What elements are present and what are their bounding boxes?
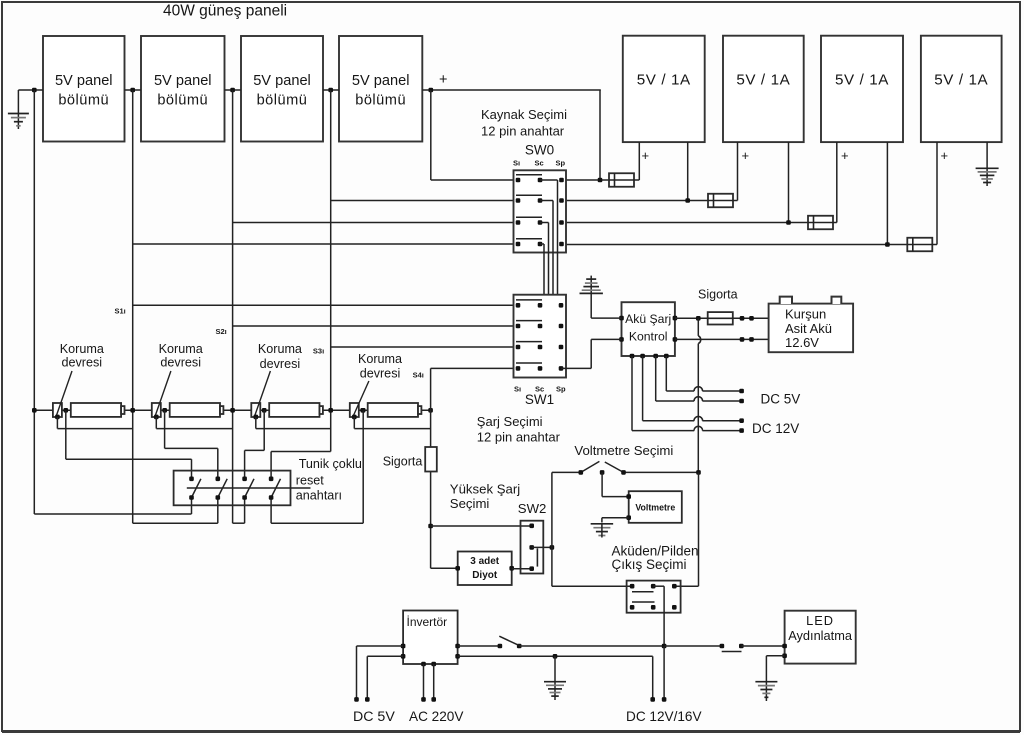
wire to SW2 top [431,525,532,527]
wire to diode box [431,567,458,569]
relay K4 contact box [350,403,359,417]
svg-text:bölümü: bölümü [257,93,308,109]
wire voltsel left [552,471,581,473]
relay K1 blade leader [56,371,72,417]
node S4-SW2 junction [428,524,433,529]
wire DC5V terminal a [354,646,403,702]
node SW2-selector junction [550,545,555,550]
svg-text:+: + [742,148,750,163]
ground G5 rail [544,656,566,700]
switch SR multi reset [174,471,311,506]
wire DC12V row b [632,356,744,433]
wire to LED [741,645,784,647]
block A1 Akü Şarj Kontrol [622,302,675,356]
relay K3 blade leader [254,371,270,417]
fuse FS2 battery [708,312,733,324]
wire panel3 drop [330,90,332,452]
node K1 contacts [55,408,68,419]
svg-text:Aydınlatma: Aydınlatma [788,628,853,643]
wire F3 to UC [833,222,837,224]
wire fuse to battery [733,317,769,319]
wire col3 lower feed [233,498,245,524]
wire upper rail right [664,645,722,647]
label S4I [413,370,424,379]
svg-text:Kaynak Seçimi: Kaynak Seçimi [481,107,567,122]
label Sigorta right [698,288,738,302]
switch SV voltmeter select [579,461,626,474]
label SW1 Sc [535,385,544,394]
svg-text:Akü Şarj: Akü Şarj [625,312,671,326]
fuse F1 [609,173,634,187]
switch SW2 [521,521,544,574]
label SW2 [518,501,547,516]
svg-text:S3ı: S3ı [313,347,324,356]
relay K4 blade leader [353,381,369,417]
switch SO output selector [627,581,681,613]
label Sigorta left [383,455,423,469]
svg-text:Sc: Sc [535,159,544,168]
wire SV common to voltmeter [602,472,629,496]
wire col4 lower feed [271,410,363,523]
fuse F3 [808,216,833,230]
wire K4 bottom link [354,417,430,429]
node row4 UC lead [885,242,890,247]
label AC 220V [409,709,463,724]
wire K3 bottom link [256,417,331,429]
block UD 5V / 1A [921,36,1002,142]
svg-text:Yüksek Şarj: Yüksek Şarj [450,481,520,496]
svg-text:S1ı: S1ı [115,306,126,315]
block UB 5V / 1A [723,36,804,142]
svg-text:DC 5V: DC 5V [761,392,801,407]
label Tunik çoklu reset anahtarı [296,457,362,503]
label SW1 [525,392,554,407]
fuse FP2 holder [170,403,224,417]
label + UB [742,148,750,163]
svg-text:+: + [841,148,849,163]
wire voltsel right [624,471,699,473]
node A1 pins [619,316,677,359]
svg-text:5V / 1A: 5V / 1A [736,72,790,89]
svg-text:Sp: Sp [556,385,566,394]
svg-text:Asit Akü: Asit Akü [785,321,832,336]
svg-text:DC 12V: DC 12V [752,421,799,436]
node ground tap [553,654,558,659]
wire battery tap vertical [698,318,700,472]
svg-text:SW2: SW2 [518,501,547,516]
node battery terminals low [740,337,754,342]
label + UD [941,148,949,163]
label + UA [642,148,650,163]
svg-text:5V / 1A: 5V / 1A [835,72,889,89]
svg-text:devresi: devresi [61,356,102,370]
wire SW1 Sp4 to A1 [561,339,622,368]
svg-text:40W güneş paneli: 40W güneş paneli [163,3,287,20]
svg-text:5V panel: 5V panel [253,73,311,89]
wire S1I row [133,304,514,306]
svg-text:Sp: Sp [556,159,566,168]
wire SW2 mid out [532,546,552,548]
svg-text:İnvertör: İnvertör [407,615,448,629]
svg-text:Diyot: Diyot [472,570,498,581]
node panel bus junctions [32,88,433,93]
block UC 5V / 1A [821,36,903,142]
svg-text:3 adet: 3 adet [470,556,500,567]
wire row2 [566,200,708,202]
wire DC12V/16V terminal b [662,646,667,702]
label DC 5V [761,392,801,407]
wire panel top bus [18,89,600,91]
svg-text:5V panel: 5V panel [352,73,410,89]
svg-text:+: + [941,148,949,163]
svg-text:Çıkış Seçimi: Çıkış Seçimi [612,557,687,572]
node M1 pins [626,494,631,520]
svg-text:bölümü: bölümü [355,93,406,109]
svg-text:Kontrol: Kontrol [629,329,668,343]
label DC 12V/16V [626,709,702,724]
wire SW0 row3 feed [233,222,514,224]
svg-text:Seçimi: Seçimi [450,496,490,511]
wire ground drop [33,90,35,514]
svg-text:+: + [439,72,447,88]
wire protection main row [34,409,430,411]
wire UD leads [937,142,987,245]
wire L1 ground link [766,656,784,701]
svg-text:bölümü: bölümü [58,93,109,109]
wire DC5V terminal b [365,656,403,701]
wire A1 to fuse [675,317,708,319]
label DC 5V bottom [353,709,395,725]
block M1 Voltmetre [629,491,682,523]
node row1 [598,178,603,183]
ground G6 led [755,682,777,698]
svg-text:Koruma: Koruma [60,342,104,356]
wire col2 lower feed [133,498,218,524]
node V1 pins [401,644,460,667]
block B1 Kurşun Asit Akü 12.6V [769,297,854,353]
fuse F2 [708,194,733,208]
wire SW0c4-SW1c1 [540,244,544,305]
wire upper rail mid [519,645,664,647]
node protection row junctions [32,408,433,413]
ground G4 A1 input [580,276,622,319]
wire K1 bottom link [57,417,132,429]
wire A1 low to battery [675,338,769,340]
svg-text:Koruma: Koruma [358,352,402,366]
svg-text:anahtarı: anahtarı [296,489,342,503]
wire panel1 drop [132,90,134,523]
svg-text:12 pin anahtar: 12 pin anahtar [481,124,565,139]
label Koruma devresi 1 [60,342,104,370]
wire UA leads [639,142,687,201]
svg-text:5V panel: 5V panel [154,73,212,89]
label Voltmetre Seçimi [574,443,673,458]
node K4 contacts [352,408,365,419]
svg-text:Koruma: Koruma [159,342,203,356]
block D1 3 adet Diyot [458,552,512,586]
wire DC12V row a [643,356,744,423]
block UA 5V / 1A [623,36,705,142]
svg-text:SW1: SW1 [525,392,554,407]
wire S3I row [331,346,514,348]
label SW0 SI [513,159,520,168]
switch SL led switch [720,644,744,652]
wire F4 to UD [932,244,937,246]
wire row3 [566,222,808,224]
label Şarj Seçimi [477,414,561,445]
svg-text:Sı: Sı [513,159,520,168]
wire SW0 row2 feed [331,200,514,202]
wire voltsel tap down [674,472,698,586]
svg-text:LED: LED [806,613,834,628]
label SW1 SI [514,385,521,394]
svg-text:Sigorta: Sigorta [383,455,423,469]
label + UC [841,148,849,163]
node battery terminals top [740,316,754,321]
fuse F4 [907,238,932,252]
wire col1 upper feed [66,410,192,479]
wire K2 bottom link [156,417,232,429]
relay K2 contact box [152,403,161,417]
wire upper rail left [458,645,500,647]
switch SW1 12-pin [514,295,567,378]
svg-text:12.6V: 12.6V [785,335,819,350]
wire AC terminals [421,664,436,702]
svg-text:DC 12V/16V: DC 12V/16V [626,709,702,724]
wire panel4 drop [430,90,432,180]
wire bus drop x600 [599,90,601,180]
switch SM main rail [498,636,522,648]
svg-text:12 pin anahtar: 12 pin anahtar [477,430,561,445]
label Koruma devresi 3 [258,342,302,371]
label Yüksek Şarj Seçimi [450,481,520,511]
block L1 LED Aydınlatma [785,611,856,664]
svg-text:Voltmetre: Voltmetre [635,503,675,513]
label SW0 [525,143,554,158]
wire DC5V row b [656,356,744,403]
node K3 contacts [254,408,267,419]
node voltsel tap [696,470,701,475]
svg-text:Şarj Seçimi: Şarj Seçimi [477,414,543,429]
wire F2 to UB [733,200,738,202]
label DC 12V [752,421,799,436]
node K2 contacts [154,408,167,419]
label Koruma devresi 4 [358,352,402,381]
svg-text:Tunik çoklu: Tunik çoklu [299,457,362,471]
wire row4 [566,244,907,246]
wire SW0c1-SW1c4 [540,180,558,368]
label S3I [313,347,324,356]
label S2I [216,327,227,336]
block P3 5V panel bölümü [241,36,323,142]
wire S2I row [233,325,514,327]
svg-text:Koruma: Koruma [258,342,302,356]
wire F1 to UA [634,179,639,181]
fuse FP1 holder [71,403,125,417]
label SW0 Sp [556,159,566,168]
wire col4 upper feed [271,452,331,479]
node row2 UA lead [685,198,690,203]
svg-text:AC 220V: AC 220V [409,709,463,724]
label S1I [115,306,126,315]
svg-text:Sı: Sı [514,385,521,394]
relay K2 blade leader [155,371,171,417]
node D1 pins [455,566,514,571]
label SW0 Sc [535,159,544,168]
svg-text:bölümü: bölümü [157,93,208,109]
svg-text:devresi: devresi [360,367,401,381]
wire M1 low pin [602,518,629,523]
ground G3 voltmeter [591,524,614,538]
label SW1 Sp [556,385,566,394]
svg-text:+: + [642,148,650,163]
wire S4I row [431,367,514,369]
svg-text:S4ı: S4ı [413,370,424,379]
svg-text:devresi: devresi [160,356,201,370]
wire S4 branch vertical [430,368,432,568]
relay K1 contact box [53,403,62,417]
svg-text:S2ı: S2ı [216,327,227,336]
block P4 5V panel bölümü [339,36,422,142]
svg-text:5V / 1A: 5V / 1A [637,72,691,89]
relay K3 contact box [251,403,260,417]
wire selector feed vertical [552,472,632,586]
wire panel2 drop [232,90,234,523]
label + panel output [439,72,447,88]
block P2 5V panel bölümü [141,36,225,142]
svg-text:Sigorta: Sigorta [698,288,738,302]
wire selector mid down [653,586,664,646]
svg-text:5V / 1A: 5V / 1A [934,72,988,89]
fuse FP3 holder [269,403,323,417]
node rail-DC12V junction [662,644,667,649]
wire DC12V/16V terminal a [650,656,655,701]
switch SW0 12-pin [514,170,567,252]
wire SW0c3-SW1c2 [540,223,549,327]
wire DC5V row a [666,356,744,393]
ground G2 below UD [976,168,999,182]
svg-text:reset: reset [296,474,324,488]
wire D1 to SW2 [512,568,532,570]
fuse FP4 holder [368,403,422,417]
title label [163,3,287,20]
wire UB leads [738,142,789,223]
wire col3 upper feed [245,410,265,479]
wire UC leads [837,142,888,245]
block V1 İnvertör [403,611,458,665]
svg-text:5V panel: 5V panel [55,73,113,89]
node battery feed junction [696,316,701,321]
wire SW0c2-SW1c3 [540,201,553,348]
fuse FS1 vertical [425,447,437,472]
label Kaynak Seçimi [481,107,567,139]
label Aküden/Pilden Çıkış Seçimi [612,544,699,573]
node L1 pins [782,644,787,658]
svg-text:devresi: devresi [260,357,301,371]
label Koruma devresi 2 [159,342,203,370]
svg-text:DC 5V: DC 5V [353,709,395,725]
svg-text:SW0: SW0 [525,143,554,158]
svg-text:Voltmetre Seçimi: Voltmetre Seçimi [574,443,673,458]
wire col2 upper feed [165,410,218,479]
wire SW0 row4 feed [133,243,514,245]
block P1 5V panel bölümü [43,36,125,142]
wire col1 lower feed [34,498,191,515]
ground G1 top-left [8,90,29,129]
svg-text:Kurşun: Kurşun [785,307,826,322]
wire row1 [431,179,609,181]
node row3 UB lead [786,220,791,225]
wire lower rail [458,655,653,657]
